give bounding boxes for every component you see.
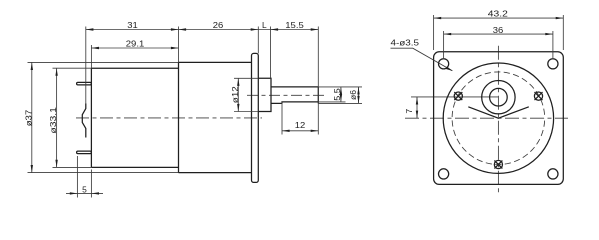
svg-text:ø33.1: ø33.1 — [48, 107, 58, 134]
svg-text:4-ø3.5: 4-ø3.5 — [391, 37, 420, 47]
svg-text:ø37: ø37 — [24, 109, 34, 126]
svg-text:ø12: ø12 — [230, 86, 240, 103]
svg-text:43.2: 43.2 — [488, 8, 508, 18]
svg-text:12: 12 — [295, 120, 306, 130]
svg-text:5.5: 5.5 — [332, 88, 342, 101]
svg-text:29.1: 29.1 — [126, 39, 145, 49]
svg-text:36: 36 — [493, 25, 504, 35]
svg-text:31: 31 — [127, 20, 138, 30]
svg-text:5: 5 — [82, 185, 87, 195]
svg-text:15.5: 15.5 — [285, 20, 304, 30]
svg-text:L: L — [262, 20, 267, 30]
svg-text:26: 26 — [213, 20, 224, 30]
svg-text:ø6: ø6 — [348, 90, 358, 100]
svg-text:7: 7 — [404, 109, 414, 114]
